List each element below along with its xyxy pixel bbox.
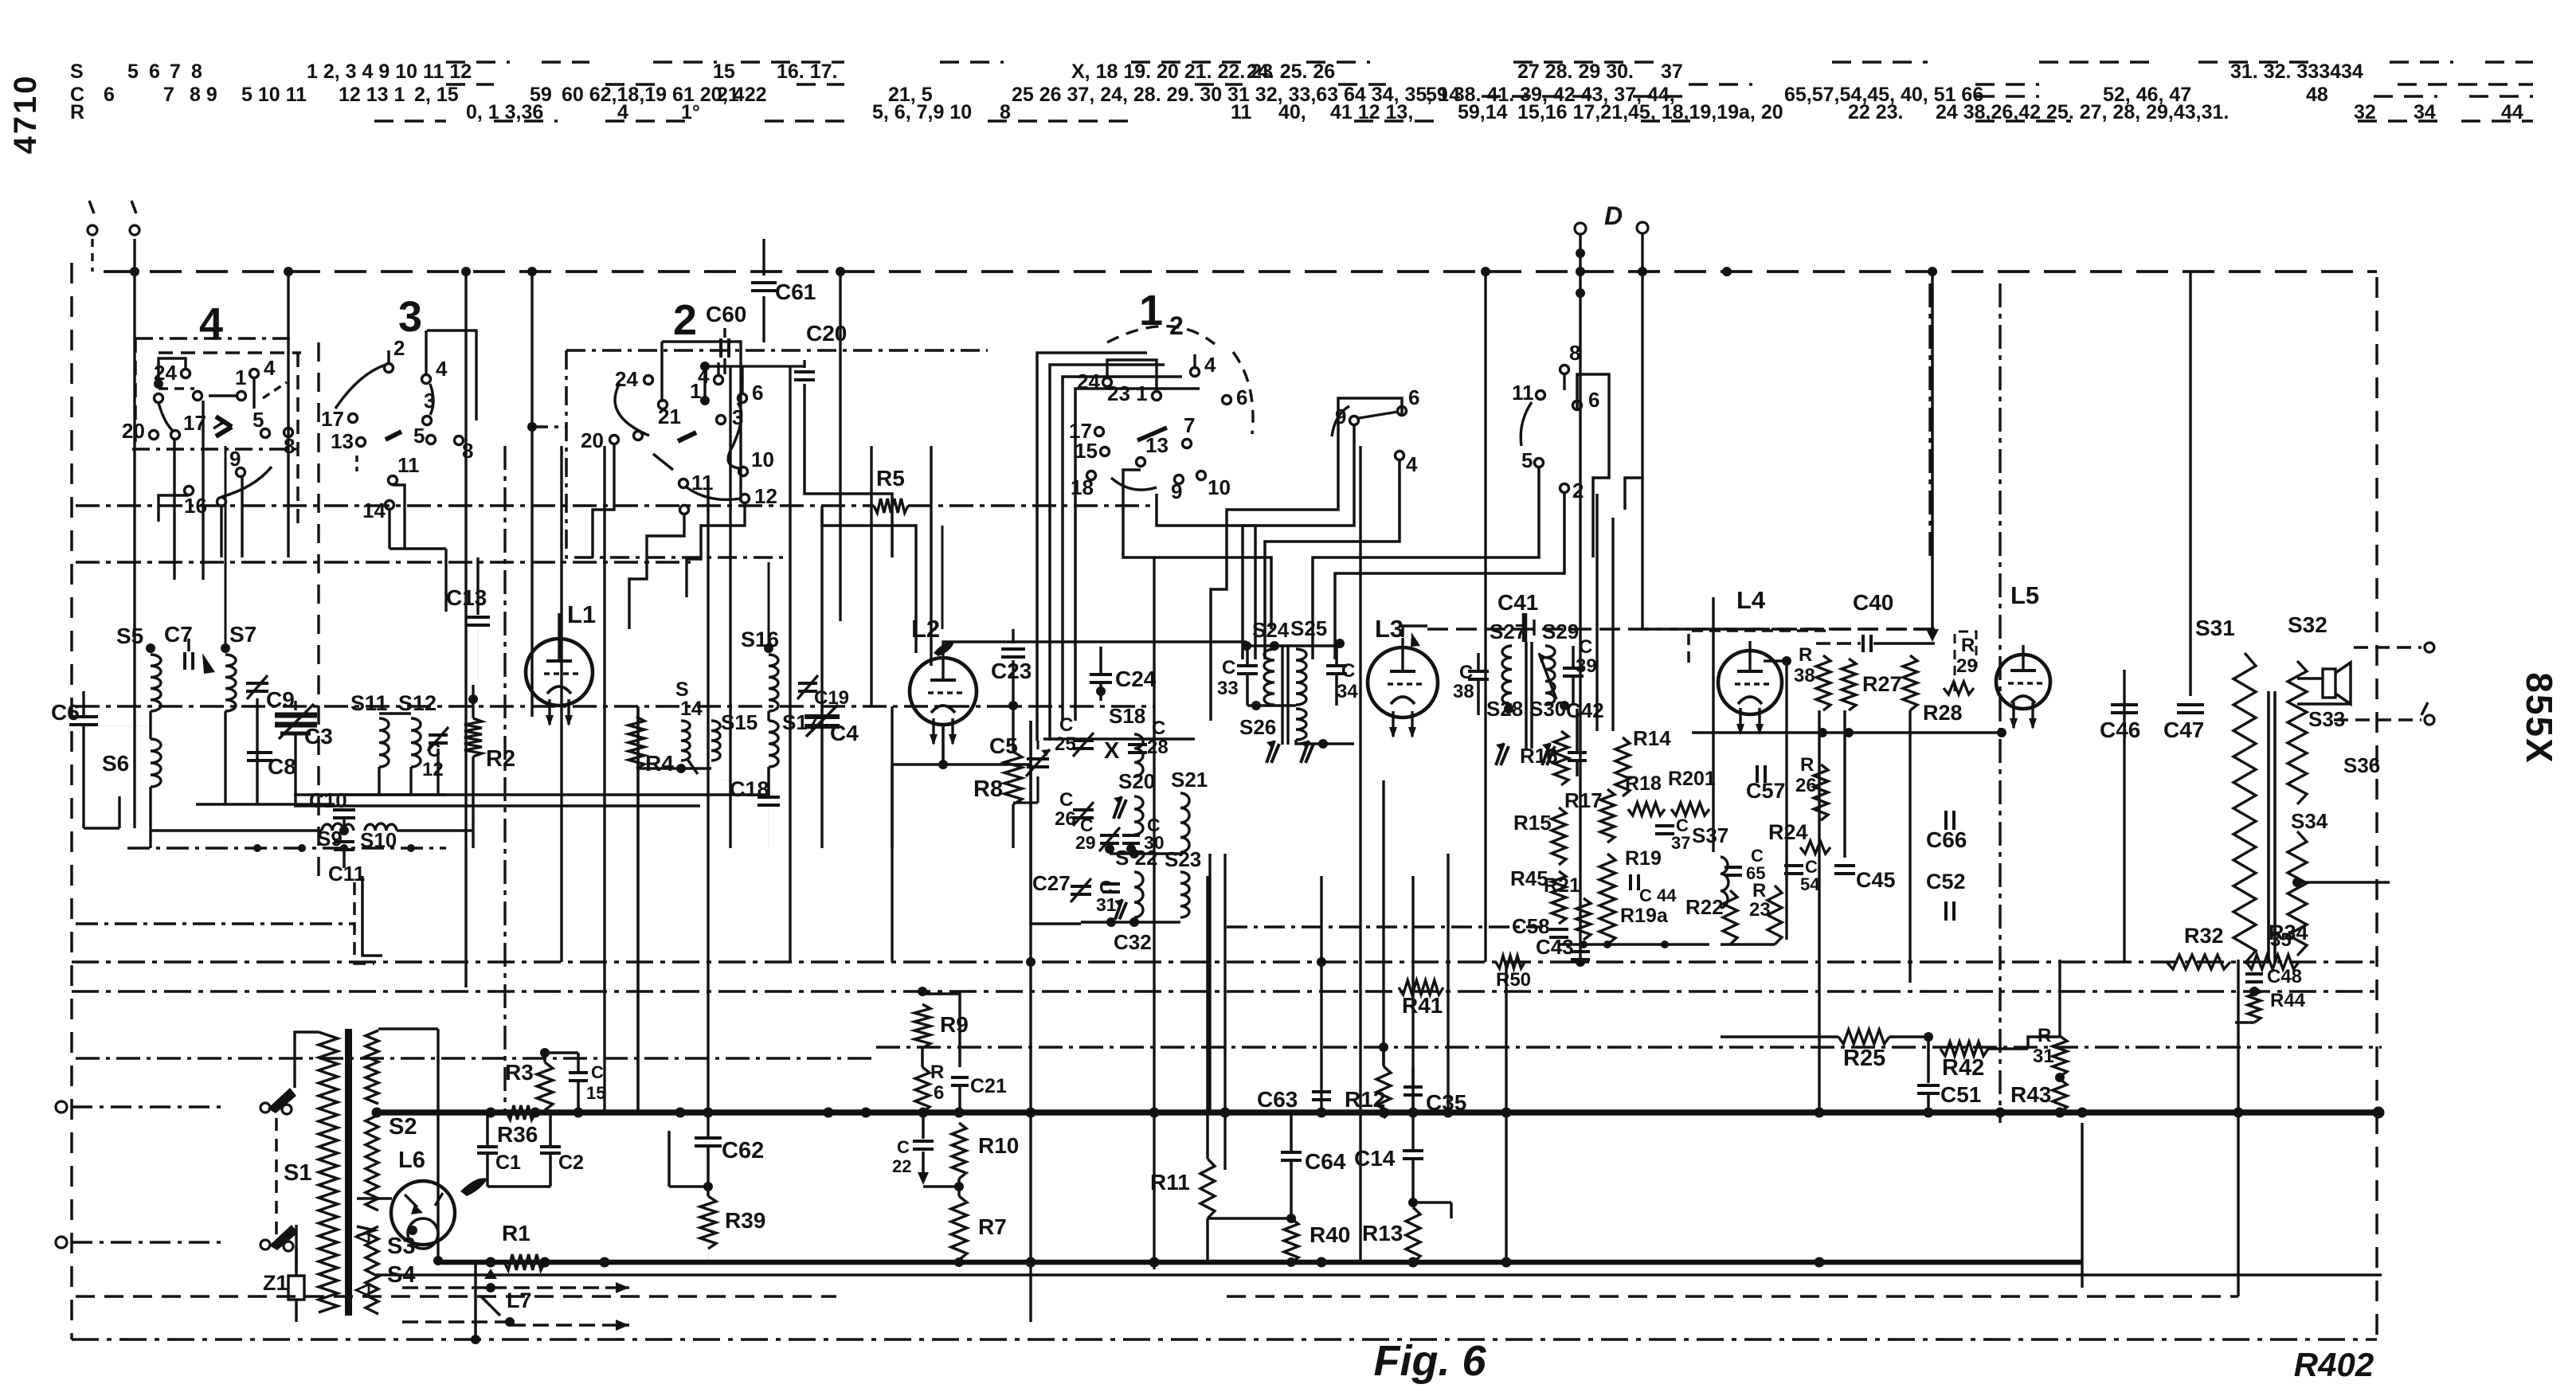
wire dash-dot line y1164 bbox=[1227, 925, 1543, 928]
svg-text:R24: R24 bbox=[1768, 820, 1808, 844]
svg-text:10: 10 bbox=[751, 448, 774, 471]
resistor R41 bbox=[1399, 980, 1443, 995]
switch cluster right contacts 8 11 6 5 2 bbox=[1560, 366, 1569, 374]
svg-text:4: 4 bbox=[199, 299, 223, 347]
capacitor C8 bbox=[247, 751, 272, 754]
wire L2 anode to IF1 bbox=[943, 642, 1247, 647]
svg-text:C6: C6 bbox=[51, 700, 80, 725]
svg-text:C21: C21 bbox=[970, 1075, 1007, 1097]
svg-text:2: 2 bbox=[1572, 479, 1584, 502]
svg-text:4: 4 bbox=[1204, 353, 1216, 377]
svg-text:C42: C42 bbox=[1566, 698, 1604, 722]
svg-text:S37: S37 bbox=[1692, 823, 1728, 847]
tap arrow S4 bbox=[356, 1285, 369, 1296]
resistor R25 bbox=[1838, 1030, 1889, 1044]
svg-text:R4: R4 bbox=[645, 751, 674, 776]
svg-text:R: R bbox=[1800, 754, 1814, 776]
svg-text:R17: R17 bbox=[1564, 788, 1603, 812]
svg-text:37: 37 bbox=[1661, 61, 1683, 83]
wire audio cluster bottom bbox=[1559, 943, 1709, 946]
svg-text:3: 3 bbox=[398, 293, 422, 341]
antenna terminal A2 bbox=[131, 201, 136, 213]
resistor R5 bbox=[874, 499, 908, 513]
svg-text:S32: S32 bbox=[2288, 612, 2327, 637]
svg-text:R13: R13 bbox=[1362, 1221, 1403, 1245]
resistor R39 bbox=[700, 1196, 716, 1249]
capacitor C66 bbox=[1944, 811, 1948, 830]
svg-text:L3: L3 bbox=[1375, 615, 1403, 643]
resistor R16 bbox=[1554, 731, 1568, 785]
svg-text:C: C bbox=[1222, 657, 1235, 678]
svg-text:C: C bbox=[897, 1137, 910, 1157]
capacitor C62 bbox=[695, 1136, 722, 1140]
transformer secondary S2 winding bbox=[366, 1030, 378, 1104]
capacitor C37 bbox=[1655, 824, 1674, 827]
switch 3 marks 13 bbox=[355, 456, 358, 471]
wire speaker bbox=[2297, 677, 2323, 680]
svg-text:12 13 1: 12 13 1 bbox=[339, 84, 405, 106]
switch 4 wiring bbox=[159, 358, 186, 384]
variable capacitor C3 (gang) bbox=[294, 701, 296, 710]
svg-text:S4: S4 bbox=[387, 1262, 415, 1288]
wire L2 bottom bbox=[942, 725, 945, 764]
wire C1 C2 bottom bbox=[487, 1185, 550, 1188]
svg-text:C51: C51 bbox=[1940, 1082, 1981, 1107]
svg-text:27 28. 29 30.: 27 28. 29 30. bbox=[1517, 61, 1634, 83]
trimmer C9 bbox=[246, 682, 268, 685]
capacitor C61 bbox=[762, 239, 765, 276]
switch cluster contacts 9 6 4 bbox=[1350, 416, 1359, 425]
node: top HT bus bbox=[104, 270, 2377, 273]
svg-text:C48: C48 bbox=[2267, 966, 2302, 987]
wire C41 row bbox=[1427, 628, 1935, 630]
svg-text:R402: R402 bbox=[2294, 1346, 2374, 1383]
bottom border (dash-dot) bbox=[72, 1338, 2377, 1341]
wire R12 top bbox=[1382, 1043, 1385, 1066]
wire L1 top bbox=[558, 613, 560, 629]
svg-text:5 10 11: 5 10 11 bbox=[241, 84, 307, 106]
switch 4 wiper bbox=[216, 416, 232, 427]
svg-text:14: 14 bbox=[680, 698, 703, 720]
wire thin line under bus bbox=[376, 1273, 2382, 1277]
wire vertical D1 bbox=[1579, 234, 1581, 962]
svg-text:6: 6 bbox=[752, 381, 763, 405]
wire dash-dot line y706 bbox=[76, 561, 693, 563]
svg-text:20: 20 bbox=[581, 428, 604, 452]
svg-text:10: 10 bbox=[1208, 475, 1231, 499]
svg-text:5: 5 bbox=[1521, 448, 1533, 472]
switch 2 wiring bbox=[703, 366, 706, 401]
svg-text:22 23.: 22 23. bbox=[1848, 101, 1904, 123]
switch 3 arcs bbox=[335, 365, 386, 409]
switch 3 contacts bbox=[385, 364, 393, 373]
wire verticals backbone bbox=[133, 272, 135, 828]
wire elbow switch2 to L2 bbox=[805, 446, 892, 557]
svg-text:S2: S2 bbox=[389, 1114, 417, 1140]
wire R10 R7 bbox=[957, 1179, 961, 1196]
resistor R7 bbox=[951, 1196, 967, 1260]
choke L7 bbox=[484, 1269, 497, 1279]
capacitor C64 bbox=[1281, 1151, 1302, 1154]
resistor R29 dashed box bbox=[1955, 632, 1976, 691]
wire dash-dot stubs bbox=[76, 922, 354, 925]
resistor R44 bbox=[2248, 987, 2261, 1023]
resistor R12 bbox=[1376, 1066, 1391, 1118]
svg-text:1: 1 bbox=[235, 366, 246, 389]
switch 1 wiper bbox=[1137, 428, 1167, 440]
svg-text:R3: R3 bbox=[505, 1060, 534, 1085]
svg-text:R2: R2 bbox=[486, 746, 515, 772]
resistor R17 bbox=[1600, 789, 1615, 843]
svg-text:9: 9 bbox=[1171, 479, 1182, 503]
capacitor C1 bbox=[477, 1145, 498, 1148]
wire R25 bbox=[1721, 1035, 1838, 1038]
svg-text:R: R bbox=[1752, 880, 1766, 901]
speaker S36 bbox=[2323, 669, 2335, 698]
wire top right of L4 bbox=[1931, 272, 1934, 635]
capacitor C22 bbox=[913, 1140, 934, 1143]
svg-text:26: 26 bbox=[1055, 808, 1076, 830]
svg-text:S18: S18 bbox=[1109, 704, 1145, 728]
resistor R22 bbox=[1723, 890, 1737, 944]
wire L4 dashed box bbox=[1689, 631, 1832, 663]
wire C62 junction bbox=[669, 1185, 708, 1188]
resistor R19 bbox=[1599, 854, 1615, 944]
switch 2 contacts bbox=[644, 376, 653, 385]
svg-text:L5: L5 bbox=[2010, 581, 2039, 609]
svg-text:S12: S12 bbox=[398, 691, 437, 715]
tube L6 (rectifier) bbox=[391, 1181, 455, 1245]
svg-text:13: 13 bbox=[331, 429, 354, 453]
svg-text:855X: 855X bbox=[2519, 672, 2560, 764]
svg-text:S 22: S 22 bbox=[1115, 846, 1158, 870]
wire dash-dot AVC line y887 bbox=[76, 705, 1154, 707]
svg-text:5: 5 bbox=[413, 424, 425, 448]
svg-text:S7: S7 bbox=[229, 622, 256, 647]
svg-text:C64: C64 bbox=[1305, 1149, 1346, 1174]
switch 2 outer dash-dot box bbox=[566, 350, 785, 557]
wire R42 bbox=[1988, 1047, 2028, 1050]
svg-text:22: 22 bbox=[892, 1156, 911, 1176]
svg-text:C19: C19 bbox=[814, 687, 849, 709]
svg-text:8: 8 bbox=[191, 61, 202, 83]
svg-text:R: R bbox=[2038, 1025, 2051, 1046]
svg-text:59,14: 59,14 bbox=[1458, 101, 1508, 123]
svg-text:R19a: R19a bbox=[1620, 905, 1669, 927]
svg-text:S26: S26 bbox=[1239, 715, 1276, 739]
switch 2 arcs bbox=[615, 383, 649, 436]
svg-text:40,: 40, bbox=[1278, 101, 1306, 123]
svg-text:C 44: C 44 bbox=[1639, 886, 1677, 905]
output transformer core bbox=[2267, 691, 2270, 964]
switch 1 wiring bbox=[1107, 360, 1157, 391]
svg-text:R15: R15 bbox=[1513, 811, 1552, 835]
svg-text:28: 28 bbox=[1147, 737, 1169, 758]
svg-text:S: S bbox=[70, 61, 84, 83]
wire C21 to bus bbox=[958, 1086, 961, 1112]
svg-text:S34: S34 bbox=[2291, 809, 2328, 833]
transformer secondary S4 winding bbox=[366, 1226, 378, 1314]
svg-text:38: 38 bbox=[1453, 681, 1474, 702]
wire mains to primary bbox=[295, 1032, 319, 1088]
switch 4 dash diagonal bbox=[263, 382, 287, 398]
svg-text:54: 54 bbox=[1800, 874, 1820, 894]
switch 4 arcs bbox=[159, 403, 172, 430]
wire R9 frame bbox=[921, 1048, 924, 1067]
switch S1 levers bbox=[268, 1088, 296, 1113]
svg-text:15: 15 bbox=[1075, 439, 1098, 463]
svg-text:R32: R32 bbox=[2184, 924, 2224, 948]
svg-text:12: 12 bbox=[754, 484, 777, 508]
switch 3 wiring bbox=[387, 350, 390, 363]
svg-text:R25: R25 bbox=[1843, 1046, 1885, 1071]
resistor R42 bbox=[1940, 1042, 1988, 1056]
svg-text:4710: 4710 bbox=[8, 74, 43, 154]
wire bundle mid cluster down bbox=[1243, 425, 1354, 659]
switch S1 contact top bbox=[260, 1103, 270, 1112]
svg-text:R18: R18 bbox=[1625, 772, 1662, 795]
svg-text:5, 6, 7,9 10: 5, 6, 7,9 10 bbox=[872, 101, 972, 123]
wire dash-dot R5 line bbox=[76, 504, 874, 506]
terminal D2 bbox=[1637, 222, 1648, 233]
svg-text:R12: R12 bbox=[1345, 1087, 1385, 1112]
svg-text:R22: R22 bbox=[1685, 895, 1724, 919]
wire S37 bottom bbox=[1721, 943, 1775, 946]
svg-text:29: 29 bbox=[1075, 832, 1096, 853]
wire L3 top bbox=[1403, 626, 1427, 637]
svg-text:C11: C11 bbox=[328, 862, 365, 886]
wire L4 anode elbow bbox=[1764, 659, 1787, 662]
transformer core (iron) bbox=[345, 1029, 352, 1316]
wire osc mid bbox=[1110, 852, 1180, 855]
svg-text:R14: R14 bbox=[1633, 726, 1671, 750]
transformer secondary S3 winding bbox=[366, 1115, 378, 1210]
wire bottom coils row bbox=[151, 829, 322, 832]
svg-text:8: 8 bbox=[1569, 341, 1580, 365]
svg-text:20: 20 bbox=[122, 419, 145, 443]
svg-text:48: 48 bbox=[2306, 84, 2328, 106]
svg-text:Fig. 6: Fig. 6 bbox=[1373, 1337, 1486, 1385]
svg-text:6: 6 bbox=[934, 1082, 944, 1104]
svg-text:S6: S6 bbox=[102, 751, 129, 776]
svg-text:2: 2 bbox=[393, 336, 405, 360]
svg-text:S15: S15 bbox=[721, 710, 758, 734]
svg-text:R40: R40 bbox=[1310, 1222, 1350, 1247]
svg-text:11: 11 bbox=[1512, 381, 1534, 405]
svg-text:12: 12 bbox=[422, 759, 444, 780]
svg-text:25: 25 bbox=[1055, 733, 1076, 755]
resistor R40 bbox=[1284, 1218, 1298, 1263]
wire bundle switch1 to oscillator bbox=[1037, 353, 1147, 741]
svg-text:7: 7 bbox=[170, 61, 181, 83]
IF1 core bbox=[1281, 645, 1283, 745]
mains terminal 2 bbox=[56, 1237, 67, 1248]
capacitor C35 bbox=[1403, 1085, 1423, 1089]
svg-text:X, 18 19. 20 21. 22. 23: X, 18 19. 20 21. 22. 23 bbox=[1071, 61, 1273, 83]
svg-text:23 1: 23 1 bbox=[1107, 381, 1148, 405]
wire bundle switch1 to IF bbox=[1157, 494, 1255, 659]
svg-text:S36: S36 bbox=[2343, 753, 2380, 777]
svg-text:S20: S20 bbox=[1118, 769, 1155, 793]
wire R11 bbox=[1206, 876, 1209, 1159]
svg-text:7: 7 bbox=[163, 84, 174, 106]
switch 3 inner box bbox=[427, 330, 476, 420]
wire dash-dot long line y1245 bbox=[72, 990, 2382, 992]
svg-text:S1: S1 bbox=[284, 1160, 311, 1186]
svg-text:R36: R36 bbox=[497, 1122, 538, 1147]
wire S16 S17 col bbox=[767, 711, 769, 721]
svg-text:4: 4 bbox=[436, 357, 448, 381]
svg-text:C52: C52 bbox=[1926, 870, 1966, 894]
capacitor C21 bbox=[951, 1076, 969, 1079]
svg-text:R9: R9 bbox=[940, 1012, 969, 1037]
svg-text:C20: C20 bbox=[806, 321, 847, 346]
svg-text:R19: R19 bbox=[1625, 847, 1662, 870]
svg-text:S24: S24 bbox=[1252, 618, 1290, 642]
svg-text:R: R bbox=[930, 1062, 944, 1083]
svg-text:C14: C14 bbox=[1354, 1146, 1396, 1171]
resistor R15 bbox=[1552, 807, 1566, 865]
svg-text:15: 15 bbox=[586, 1083, 605, 1103]
capacitor C45 bbox=[1834, 864, 1855, 867]
svg-text:R41: R41 bbox=[1402, 993, 1443, 1018]
svg-text:R27: R27 bbox=[1862, 672, 1902, 696]
switch wafer 4 dashed box bbox=[134, 338, 137, 450]
svg-text:C47: C47 bbox=[2163, 718, 2204, 742]
svg-text:R10: R10 bbox=[978, 1133, 1019, 1158]
wire R44 bottom bbox=[2235, 1021, 2254, 1024]
svg-text:C45: C45 bbox=[1856, 868, 1896, 892]
wire S11 S12 bbox=[379, 712, 411, 714]
wire S2 tap to bus bbox=[372, 1108, 382, 1118]
svg-text:C3: C3 bbox=[304, 724, 333, 749]
svg-text:C: C bbox=[591, 1062, 604, 1082]
svg-text:R201: R201 bbox=[1668, 768, 1716, 790]
svg-text:L1: L1 bbox=[567, 600, 596, 628]
svg-text:21 22: 21 22 bbox=[717, 84, 767, 106]
capacitor C44 bbox=[1629, 874, 1632, 890]
svg-text:R50: R50 bbox=[1496, 969, 1531, 991]
svg-text:C: C bbox=[1059, 789, 1073, 811]
heater line L7 bbox=[402, 1286, 491, 1289]
svg-text:C13: C13 bbox=[446, 585, 487, 610]
svg-text:R34: R34 bbox=[2269, 921, 2308, 944]
svg-text:2: 2 bbox=[1169, 311, 1184, 340]
svg-text:C23: C23 bbox=[991, 659, 1032, 683]
svg-text:C5: C5 bbox=[989, 733, 1018, 758]
svg-text:11: 11 bbox=[397, 453, 420, 477]
flag marks IF2 bbox=[1496, 743, 1504, 765]
wire osc right col bbox=[1180, 852, 1181, 872]
switch 2 inner box bbox=[662, 342, 741, 502]
switch 2 staircase bbox=[629, 514, 684, 629]
svg-text:Z1: Z1 bbox=[263, 1271, 288, 1295]
wire S2 top elbow bbox=[378, 1027, 438, 1030]
svg-text:C2: C2 bbox=[558, 1152, 584, 1174]
node: HT+ heavy bus bbox=[376, 1109, 2378, 1116]
svg-text:D: D bbox=[1604, 201, 1623, 230]
svg-text:16. 17.: 16. 17. bbox=[777, 61, 837, 83]
flag marks IF1 bbox=[1266, 741, 1274, 763]
wire S5-S6 bbox=[149, 711, 151, 739]
svg-text:S27: S27 bbox=[1490, 620, 1526, 643]
svg-text:C32: C32 bbox=[1114, 930, 1152, 954]
svg-text:21: 21 bbox=[658, 405, 681, 428]
svg-text:1: 1 bbox=[690, 379, 701, 403]
wire audio right bbox=[1692, 731, 2002, 734]
svg-text:38: 38 bbox=[1794, 665, 1815, 686]
trimmer C19 bbox=[798, 682, 817, 685]
mains terminal 1 bbox=[56, 1101, 67, 1112]
svg-text:5: 5 bbox=[253, 408, 264, 432]
resistor R11 bbox=[1200, 1159, 1215, 1218]
resistor R2 bbox=[464, 718, 482, 757]
svg-text:7: 7 bbox=[1184, 413, 1195, 437]
antenna terminal A1 bbox=[89, 201, 94, 213]
resistor R50 bbox=[1496, 956, 1525, 968]
svg-text:X: X bbox=[1104, 738, 1120, 764]
svg-text:R7: R7 bbox=[978, 1214, 1007, 1239]
svg-text:L7: L7 bbox=[507, 1288, 532, 1312]
svg-text:C41: C41 bbox=[1497, 590, 1538, 615]
svg-text:5: 5 bbox=[127, 61, 139, 83]
svg-text:R16: R16 bbox=[1520, 744, 1558, 768]
svg-text:R1: R1 bbox=[502, 1221, 530, 1245]
svg-text:S29: S29 bbox=[1542, 620, 1579, 643]
svg-text:R: R bbox=[1799, 644, 1812, 666]
header rule dashes bbox=[446, 61, 510, 64]
svg-text:C63: C63 bbox=[1257, 1087, 1298, 1112]
switch cluster wiring r bbox=[1563, 374, 1565, 390]
wire right terminals bbox=[2354, 646, 2421, 649]
svg-text:R: R bbox=[70, 101, 84, 123]
svg-text:C62: C62 bbox=[722, 1138, 764, 1163]
wire S14 junction bbox=[636, 767, 711, 770]
svg-text:C24: C24 bbox=[1115, 667, 1157, 691]
svg-text:8 9: 8 9 bbox=[190, 84, 217, 106]
svg-text:S31: S31 bbox=[2195, 616, 2235, 640]
svg-text:6: 6 bbox=[104, 84, 115, 106]
svg-text:17: 17 bbox=[321, 407, 344, 431]
wire vertical D2 bbox=[1641, 233, 1643, 629]
svg-text:C27: C27 bbox=[1032, 871, 1071, 895]
switch 1 contacts bbox=[1103, 378, 1112, 387]
svg-text:C66: C66 bbox=[1926, 827, 1967, 852]
capacitor C58 bbox=[1549, 928, 1568, 931]
wire IF1 top bbox=[1247, 644, 1296, 647]
switch S1 link bbox=[275, 1118, 278, 1234]
wire dashed box bottom-left bbox=[354, 882, 374, 964]
capacitor C48 bbox=[2245, 972, 2263, 976]
switch S1 contact bottom bbox=[260, 1240, 270, 1249]
transformer primary S1 winding bbox=[319, 1032, 338, 1312]
svg-text:6: 6 bbox=[149, 61, 160, 83]
svg-text:S30: S30 bbox=[1529, 697, 1566, 721]
svg-text:S21: S21 bbox=[1171, 768, 1208, 792]
svg-text:C: C bbox=[1059, 714, 1073, 736]
wire osc cluster frame bbox=[1031, 721, 1081, 924]
resistor R3 bbox=[537, 1062, 553, 1110]
capacitor C14 bbox=[1403, 1149, 1423, 1152]
svg-text:2, 15: 2, 15 bbox=[414, 84, 459, 106]
capacitor C46 bbox=[2111, 703, 2138, 706]
capacitor C54 bbox=[1784, 864, 1803, 867]
svg-text:L6: L6 bbox=[398, 1148, 425, 1173]
svg-text:R42: R42 bbox=[1942, 1055, 1984, 1081]
wire L6 grid lead bbox=[357, 1197, 392, 1200]
switch 1 dashed arc bbox=[1107, 326, 1215, 344]
svg-text:R5: R5 bbox=[876, 466, 905, 491]
